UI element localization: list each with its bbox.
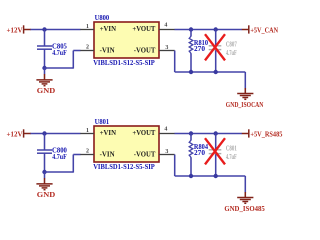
- svg-text:U800: U800: [95, 14, 110, 22]
- port +12V: [7, 129, 32, 138]
- pin 3 (-VOUT): [159, 45, 175, 51]
- capacitor C800 4.7uF: [37, 134, 67, 173]
- ground GND: [36, 172, 55, 199]
- pin 4 (+VOUT): [159, 127, 175, 134]
- svg-text:4.7uF: 4.7uF: [226, 50, 237, 57]
- svg-text:4.7uF: 4.7uF: [226, 154, 237, 161]
- resistor R804 270: [189, 134, 208, 177]
- junction output node at C: [214, 131, 218, 135]
- svg-text:C807: C807: [226, 41, 237, 48]
- svg-text:+VOUT: +VOUT: [132, 129, 155, 137]
- junction output node at R: [189, 131, 193, 135]
- svg-text:GND_ISOCAN: GND_ISOCAN: [226, 100, 264, 109]
- svg-text:+VOUT: +VOUT: [132, 25, 155, 33]
- svg-text:4: 4: [164, 23, 167, 29]
- junction return node at R: [189, 70, 193, 74]
- junction output node at R: [189, 27, 193, 31]
- svg-text:-VOUT: -VOUT: [134, 46, 156, 54]
- wire -VOUT return rail: [175, 51, 246, 73]
- junction cap/gnd node: [42, 66, 46, 70]
- junction input node: [42, 131, 46, 135]
- svg-text:+VIN: +VIN: [100, 129, 116, 137]
- svg-text:+12V: +12V: [7, 129, 24, 138]
- svg-text:1: 1: [86, 24, 89, 30]
- pin 1 (+VIN): [80, 24, 94, 30]
- svg-text:+5V_RS485: +5V_RS485: [250, 129, 282, 138]
- DC-DC converter U801 VIBLSD1-S12-S5-SIP: [93, 118, 159, 171]
- svg-text:270: 270: [194, 46, 206, 53]
- wire +12V rail to pin 1: [31, 133, 81, 135]
- svg-text:4: 4: [164, 127, 167, 133]
- no-fit X mark over C807: [205, 34, 225, 60]
- svg-text:+12V: +12V: [7, 25, 24, 34]
- pin 2 (-VIN): [80, 148, 94, 154]
- wire +12V rail to pin 1: [31, 29, 81, 31]
- svg-text:+5V_CAN: +5V_CAN: [250, 25, 278, 34]
- svg-text:4.7uF: 4.7uF: [52, 154, 67, 161]
- wire +VOUT rail: [175, 29, 243, 31]
- junction input node: [42, 27, 46, 31]
- svg-text:1: 1: [86, 128, 89, 134]
- no-fit X mark over C801: [205, 138, 225, 164]
- svg-text:U801: U801: [95, 118, 110, 126]
- svg-text:3: 3: [165, 45, 168, 51]
- ground GND_ISOCAN: [226, 72, 264, 109]
- port +12V: [7, 25, 32, 34]
- junction return node at C: [214, 70, 218, 74]
- wire +VOUT rail: [175, 133, 243, 135]
- resistor R810 270: [189, 30, 208, 73]
- wire cap node to pin 2: [45, 51, 81, 69]
- wire output cap branch: [215, 30, 217, 73]
- capacitor C801 4.7uF (not fitted): [209, 145, 238, 161]
- svg-text:3: 3: [165, 149, 168, 155]
- capacitor C807 4.7uF (not fitted): [209, 41, 238, 57]
- svg-text:270: 270: [194, 150, 206, 157]
- svg-text:-VIN: -VIN: [100, 150, 115, 158]
- svg-text:GND: GND: [37, 190, 56, 199]
- ground GND: [36, 68, 55, 95]
- port +5V_RS485: [242, 129, 283, 138]
- svg-text:VIBLSD1-S12-S5-SIP: VIBLSD1-S12-S5-SIP: [93, 163, 155, 171]
- junction output node at C: [214, 27, 218, 31]
- DC-DC converter U800 VIBLSD1-S12-S5-SIP: [93, 14, 159, 67]
- svg-text:-VOUT: -VOUT: [134, 150, 156, 158]
- capacitor C805 4.7uF: [37, 30, 67, 69]
- svg-text:GND: GND: [37, 86, 56, 95]
- pin 2 (-VIN): [80, 44, 94, 50]
- wire output cap branch: [215, 134, 217, 177]
- svg-text:2: 2: [86, 44, 89, 50]
- svg-text:2: 2: [86, 148, 89, 154]
- port +5V_CAN: [242, 25, 279, 34]
- svg-text:GND_ISO485: GND_ISO485: [224, 204, 265, 213]
- pin 3 (-VOUT): [159, 149, 175, 155]
- junction cap/gnd node: [42, 170, 46, 174]
- junction return node at R: [189, 174, 193, 178]
- svg-text:VIBLSD1-S12-S5-SIP: VIBLSD1-S12-S5-SIP: [93, 59, 155, 67]
- junction return node at C: [214, 174, 218, 178]
- wire cap node to pin 2: [45, 155, 81, 173]
- pin 4 (+VOUT): [159, 23, 175, 30]
- wire -VOUT return rail: [175, 155, 246, 177]
- svg-text:4.7uF: 4.7uF: [52, 50, 67, 57]
- svg-text:C801: C801: [226, 145, 237, 152]
- pin 1 (+VIN): [80, 128, 94, 134]
- ground GND_ISO485: [224, 176, 265, 213]
- svg-text:-VIN: -VIN: [100, 46, 115, 54]
- svg-text:+VIN: +VIN: [100, 25, 116, 33]
